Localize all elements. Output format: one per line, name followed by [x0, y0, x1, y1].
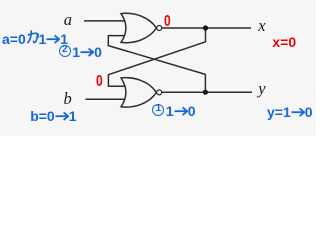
annotation 1 -> 0 (step 1)	[166, 104, 196, 118]
hiragana ka glyph	[27, 30, 40, 44]
wire y output	[162, 91, 252, 93]
annotation y=1->0	[267, 105, 313, 119]
wire b input	[86, 98, 127, 100]
annotation b=0->1	[30, 109, 76, 123]
logic value 0 at G1 output	[164, 14, 171, 30]
annotation circled 1	[152, 104, 164, 116]
annotation 1 -> 0 (step 2)	[72, 45, 102, 59]
node Y junction dot	[203, 90, 208, 95]
output label x	[258, 18, 265, 35]
input label a	[64, 12, 72, 29]
NOR gate G1 output bubble	[157, 26, 162, 31]
annotation a=0	[2, 32, 26, 46]
node X junction dot	[203, 25, 208, 30]
wire feedback from node X to lower NOR input	[108, 28, 205, 86]
annotation 1 -> 1	[39, 32, 69, 46]
wire feedback from node Y to upper NOR input	[108, 36, 205, 93]
output label y	[258, 81, 265, 98]
NOR gate G1 (top) body	[121, 13, 156, 42]
annotation circled 2	[59, 45, 71, 57]
NOR gate G2 (bottom) body	[121, 78, 156, 107]
input label b	[64, 91, 72, 108]
annotation x=0	[272, 35, 296, 49]
wire x output	[162, 27, 251, 29]
NOR gate G2 output bubble	[157, 90, 162, 95]
logic value 0 at G2 upper input	[96, 74, 103, 90]
wire a input	[84, 20, 126, 22]
